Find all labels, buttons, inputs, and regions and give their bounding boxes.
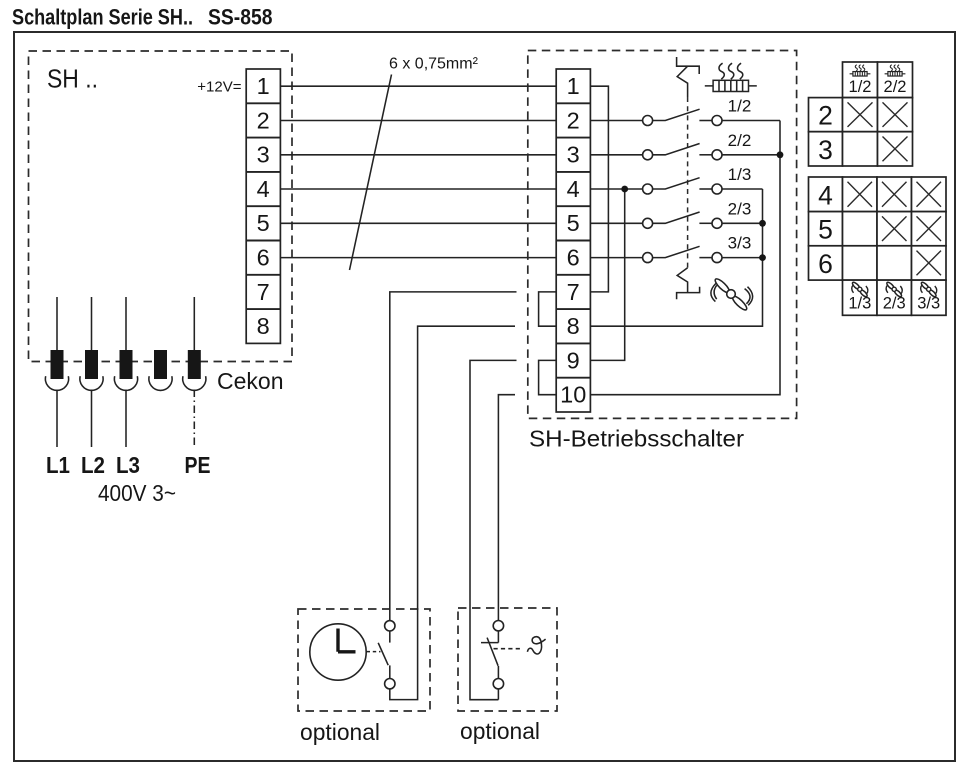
X mark row4 col2	[882, 182, 907, 207]
svg-text:L2: L2	[81, 452, 105, 478]
X mark row2 col1	[848, 102, 873, 127]
wire terminal 1 to 1	[280, 85, 556, 87]
svg-text:10: 10	[560, 382, 586, 408]
junction node 2/3 output	[759, 220, 766, 227]
svg-text:8: 8	[567, 313, 580, 339]
svg-text:6: 6	[567, 245, 580, 271]
switch contact 3/3	[590, 234, 762, 263]
X mark row3 col2	[883, 137, 908, 162]
svg-text:2: 2	[257, 107, 270, 133]
table lower (fan speed matrix) grid	[809, 177, 947, 315]
svg-text:2/3: 2/3	[728, 199, 752, 218]
svg-text:L3: L3	[116, 452, 140, 478]
switch contact 2/2	[590, 131, 780, 160]
mechanical coupling dashed line	[687, 97, 689, 268]
wire terminal 4 to 4	[280, 188, 556, 190]
fan symbol (fan pictogram)	[711, 277, 753, 312]
svg-text:2/2: 2/2	[728, 131, 752, 150]
svg-text:2/3: 2/3	[883, 295, 906, 313]
svg-text:2: 2	[567, 107, 580, 133]
switch contact 2/3	[590, 199, 762, 228]
svg-text:6: 6	[818, 249, 833, 279]
optional thermostat box (dashed)	[458, 608, 557, 711]
svg-text:2/2: 2/2	[884, 78, 907, 96]
wire thermostat bottom to terminal 9 jumper row	[470, 360, 517, 699]
svg-text:+12V=: +12V=	[197, 79, 241, 96]
svg-text:4: 4	[818, 180, 833, 210]
heater symbol (heating element pictogram)	[705, 63, 757, 91]
detent mechanism symbol bottom	[677, 268, 700, 299]
clock symbol (timer)	[310, 624, 366, 680]
junction node 3/3 output	[759, 254, 766, 261]
wire timer top to terminal 7 jumper row	[390, 292, 517, 621]
wire terminal 5 to 5	[280, 222, 556, 224]
X mark row2 col2	[883, 102, 908, 127]
wire terminal 6 to 6	[280, 257, 556, 259]
table upper heater icon 2/2	[885, 65, 906, 76]
svg-text:6 x 0,75mm²: 6 x 0,75mm²	[389, 56, 479, 73]
svg-text:1/3: 1/3	[728, 165, 752, 184]
svg-text:optional: optional	[460, 718, 540, 744]
svg-text:8: 8	[257, 313, 270, 339]
svg-text:9: 9	[567, 347, 580, 373]
optional timer box (dashed)	[298, 609, 430, 711]
svg-text:Schaltplan Serie SH..: Schaltplan Serie SH..	[12, 5, 193, 30]
X mark row5 col2	[882, 216, 907, 241]
wire terminal 9 tap from wire 4	[590, 189, 624, 360]
svg-text:7: 7	[257, 279, 270, 305]
svg-text:3/3: 3/3	[917, 295, 940, 313]
table upper heater icon 1/2	[850, 65, 871, 76]
Cekon plug pin N (unused)	[149, 350, 172, 390]
svg-text:PE: PE	[185, 452, 211, 478]
svg-text:3: 3	[257, 142, 270, 168]
terminal strip X2 (switch unit, terminals 1-10)	[556, 69, 590, 412]
dashed actuator link clock to contact	[367, 651, 381, 653]
switch contact 1/2	[590, 97, 780, 126]
svg-text:3: 3	[567, 142, 580, 168]
svg-text:5: 5	[257, 210, 270, 236]
svg-text:SH-Betriebsschalter: SH-Betriebsschalter	[529, 426, 744, 452]
svg-text:4: 4	[257, 176, 270, 202]
wire terminal 1 to terminal 7 (right loop)	[590, 86, 608, 292]
table lower fan icon 3/3	[920, 281, 937, 298]
wire terminal 3 to 3	[280, 154, 556, 156]
svg-text:optional: optional	[300, 719, 380, 745]
temperature symbol theta	[527, 637, 545, 654]
Cekon plug pin L3	[114, 297, 137, 447]
svg-text:SH ..: SH ..	[47, 64, 98, 94]
svg-text:1/2: 1/2	[728, 97, 752, 116]
table lower fan icon 2/3	[886, 281, 903, 298]
svg-text:400V 3~: 400V 3~	[98, 480, 176, 506]
svg-text:3/3: 3/3	[728, 234, 752, 253]
table upper (heating circuits matrix) grid	[809, 62, 913, 166]
wire bus to terminal 8	[590, 189, 762, 326]
jumper bracket terminals 9-10	[539, 360, 557, 394]
svg-text:L1: L1	[46, 452, 70, 478]
wire bus to terminal 10	[590, 121, 780, 395]
svg-text:5: 5	[567, 210, 580, 236]
svg-text:6: 6	[257, 245, 270, 271]
Cekon plug pin L2	[80, 297, 103, 447]
X mark row6 col3	[917, 251, 942, 276]
svg-text:Cekon: Cekon	[217, 368, 283, 394]
terminal strip X1 (appliance, terminals 1-8)	[246, 69, 280, 343]
cable slash mark	[350, 75, 392, 271]
wire thermostat top to terminal 10 jumper row	[498, 395, 515, 621]
Cekon plug pin L1	[45, 297, 68, 447]
svg-text:7: 7	[567, 279, 580, 305]
wire terminal 2 to 2	[280, 120, 556, 122]
jumper bracket terminals 7-8	[539, 292, 557, 326]
X mark row5 col3	[917, 216, 942, 241]
svg-text:5: 5	[818, 215, 833, 245]
svg-text:1: 1	[567, 73, 580, 99]
svg-text:2: 2	[818, 101, 833, 131]
dashed enclosure box SH .. (appliance)	[29, 51, 293, 362]
timer switch contact	[378, 621, 395, 689]
switch contact 1/3	[590, 165, 762, 194]
table lower fan icon 1/3	[851, 281, 868, 298]
X mark row4 col3	[917, 182, 942, 207]
dashed enclosure box SH-Betriebsschalter	[528, 51, 797, 419]
svg-text:1/2: 1/2	[849, 78, 872, 96]
thermostat switch contact	[481, 621, 504, 700]
dashed actuator link thermostat	[494, 648, 522, 650]
svg-text:3: 3	[818, 135, 833, 165]
detent mechanism symbol top	[677, 57, 700, 97]
svg-text:4: 4	[567, 176, 580, 202]
junction node 2/2 output	[777, 151, 784, 158]
junction node on wire 4	[621, 186, 628, 193]
wire timer bottom return to terminal 8 jumper row	[390, 326, 515, 699]
svg-text:1: 1	[257, 73, 270, 99]
Cekon plug pin PE	[183, 297, 206, 447]
X mark row4 col1	[848, 182, 873, 207]
svg-text:SS-858: SS-858	[208, 5, 273, 30]
svg-text:1/3: 1/3	[848, 295, 871, 313]
